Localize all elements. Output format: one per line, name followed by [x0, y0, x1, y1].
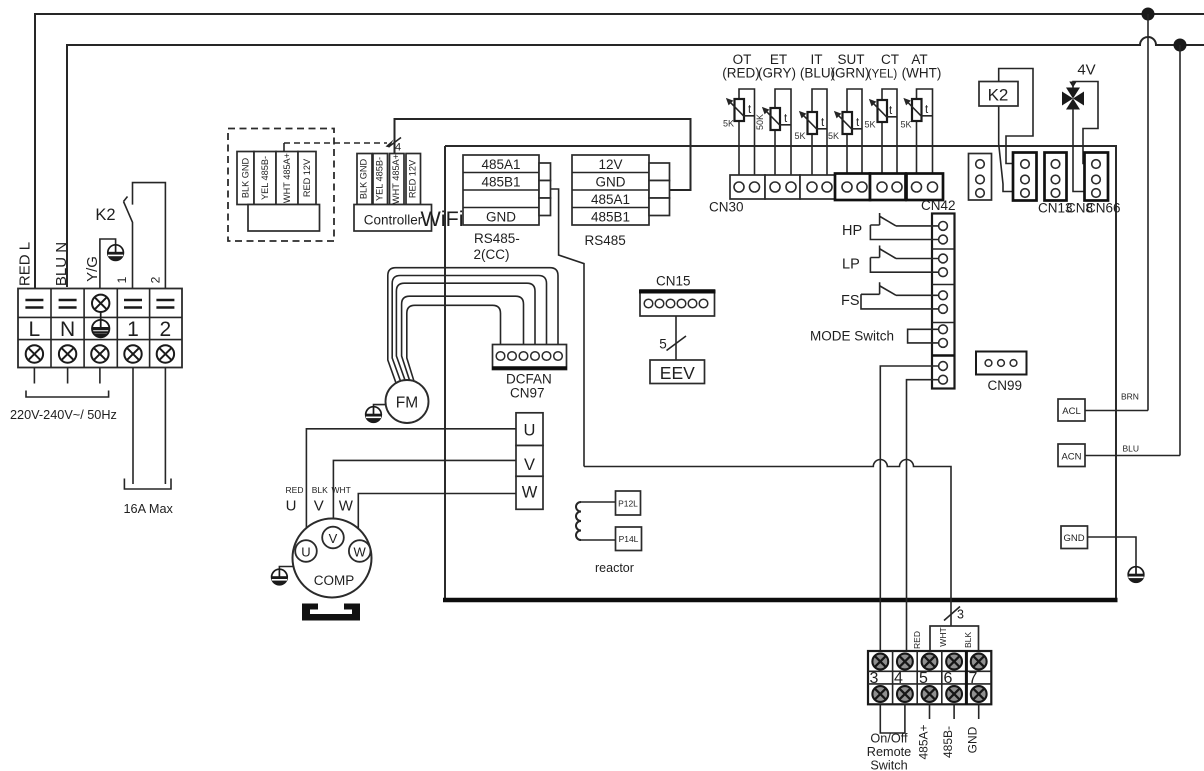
supply bracket [26, 391, 109, 398]
connector CN42 strip [932, 214, 955, 389]
svg-text:GND: GND [966, 726, 980, 753]
svg-text:BLK: BLK [312, 485, 328, 495]
wire 485A+ stub [929, 704, 931, 719]
ground earth FM [374, 405, 387, 407]
svg-text:reactor: reactor [595, 561, 634, 575]
svg-text:DCFAN: DCFAN [506, 372, 552, 387]
svg-text:FM: FM [396, 395, 418, 412]
svg-text:WHT 485A+: WHT 485A+ [282, 153, 292, 203]
svg-text:WHT 485A+: WHT 485A+ [391, 154, 401, 204]
RS485-2 tabs [539, 163, 551, 181]
connector block 2 [765, 175, 800, 199]
svg-text:BLK GND: BLK GND [241, 157, 251, 198]
svg-text:P14L: P14L [619, 534, 639, 544]
connector block 6 [907, 174, 944, 201]
svg-text:(GRY): (GRY) [758, 66, 796, 81]
PCB board outline [445, 146, 1116, 600]
svg-text:GND: GND [1063, 533, 1084, 544]
wire GND to earth [1088, 537, 1137, 567]
svg-text:485B1: 485B1 [481, 175, 520, 190]
terminal GND [1061, 526, 1088, 549]
terminal W box [516, 476, 543, 509]
wire V to COMP [333, 460, 516, 527]
svg-text:V: V [329, 531, 338, 546]
svg-text:t: t [821, 117, 825, 129]
node junction dot second line [1174, 39, 1187, 52]
svg-text:(WHT): (WHT) [902, 66, 942, 81]
svg-text:t: t [856, 117, 860, 129]
svg-text:CT: CT [881, 52, 899, 67]
wire U to COMP [306, 429, 516, 541]
svg-text:W: W [522, 484, 538, 502]
svg-text:RED: RED [912, 631, 922, 649]
svg-text:FS: FS [841, 293, 860, 309]
svg-text:RS485: RS485 [585, 233, 626, 248]
svg-text:BLU N: BLU N [53, 242, 70, 286]
connector CN13 [1013, 153, 1037, 201]
svg-text:BLK: BLK [963, 632, 973, 648]
sensor labels row [722, 52, 941, 81]
svg-text:Remote: Remote [867, 745, 911, 759]
slash 3-wire mark [944, 607, 960, 621]
wire remote B from CN42 pin10 [907, 380, 939, 651]
svg-text:LP: LP [842, 257, 860, 273]
wire remote A from CN42 pin9 [880, 366, 938, 651]
svg-text:Controller: Controller [364, 213, 423, 228]
wire remote loop below TB2 [880, 704, 905, 733]
svg-text:WiFi: WiFi [421, 207, 464, 231]
terminal block cell dividers [51, 289, 150, 368]
svg-text:HP: HP [842, 223, 862, 239]
svg-text:5K: 5K [723, 119, 734, 129]
TB2 screws top row [872, 654, 888, 670]
svg-text:12V: 12V [598, 157, 622, 172]
svg-text:RS485-: RS485- [474, 231, 520, 246]
svg-text:RED 12V: RED 12V [302, 158, 312, 197]
wire ACL drop (BRN) [1147, 14, 1149, 411]
svg-text:U: U [301, 545, 310, 560]
16A bracket [124, 479, 171, 490]
wire screw link [100, 312, 102, 320]
wire GND stub [978, 704, 980, 719]
svg-text:485A1: 485A1 [591, 192, 630, 207]
RS485 tabs [649, 163, 670, 181]
connector block 5 [870, 174, 906, 201]
wire W to COMP [358, 494, 516, 541]
svg-text:K2: K2 [95, 206, 115, 224]
thermistor SUT [828, 89, 862, 182]
ground earth screw near K2 [108, 245, 124, 261]
svg-text:485A+: 485A+ [917, 724, 931, 759]
dashed cable to controller [283, 143, 285, 152]
svg-text:5K: 5K [795, 131, 806, 141]
svg-text:W: W [354, 545, 367, 560]
relay K2 box [979, 82, 1018, 107]
svg-text:RED: RED [286, 485, 304, 495]
wire ACL to BRN [1085, 410, 1148, 412]
slash 4-wire mark [389, 138, 402, 148]
svg-text:(RED): (RED) [722, 66, 760, 81]
terminal V box [516, 446, 543, 477]
svg-text:4: 4 [395, 142, 401, 154]
wire Y/G with earth screw [100, 239, 116, 289]
svg-text:RED L: RED L [17, 242, 34, 286]
relay K2 contact blade and terminal 1 wire [124, 197, 133, 289]
compressor mount bracket [302, 604, 360, 621]
connector pins [734, 182, 938, 192]
earth screw symbol row2 [92, 320, 109, 337]
controller cable 4-wire riser to RS485 [395, 119, 691, 190]
TB2 screws bottom row [872, 686, 888, 702]
terminal ACN [1058, 444, 1085, 467]
connector block 4 [835, 174, 870, 201]
svg-text:MODE Switch: MODE Switch [810, 329, 894, 344]
svg-text:4: 4 [894, 670, 903, 687]
svg-text:5K: 5K [865, 120, 876, 130]
motor FM wires to DCFAN (nested) [388, 268, 558, 383]
svg-text:1: 1 [115, 276, 129, 283]
wire 4V bottom [1073, 109, 1091, 192]
svg-text:CN42: CN42 [921, 198, 956, 213]
svg-text:2: 2 [160, 318, 172, 341]
valve flow arrow [1069, 82, 1076, 88]
svg-text:N: N [60, 318, 75, 341]
controller connector pin strips [357, 154, 372, 205]
connector CN15 [640, 290, 715, 316]
compressor COMP [293, 519, 372, 598]
terminal P12L [616, 491, 641, 515]
svg-text:485B-: 485B- [941, 726, 955, 758]
svg-text:5: 5 [919, 670, 928, 687]
svg-text:485B1: 485B1 [591, 210, 630, 225]
svg-text:CN30: CN30 [709, 200, 744, 215]
wire N (BLU) from terminal N across second line with hop over BRN drop [67, 37, 1204, 287]
terminal block TB1 outline [18, 289, 182, 368]
svg-text:GND: GND [486, 210, 516, 225]
svg-text:V: V [524, 456, 535, 474]
connector CN99 [976, 352, 1027, 375]
svg-text:ACN: ACN [1061, 452, 1081, 463]
svg-text:4V: 4V [1077, 62, 1095, 79]
svg-text:P12L: P12L [618, 499, 638, 509]
svg-text:U: U [286, 498, 297, 515]
svg-text:5: 5 [659, 337, 667, 352]
wire ACN to BLU [1085, 455, 1180, 457]
dashed remote-controller box [228, 129, 334, 242]
wire K2 coil top loop [999, 69, 1033, 164]
terminal U box [516, 413, 543, 446]
svg-text:Y/G: Y/G [84, 256, 101, 282]
connector DCFAN CN97 [493, 345, 567, 370]
svg-text:RED 12V: RED 12V [407, 159, 417, 198]
svg-text:Switch: Switch [870, 759, 907, 771]
svg-text:3: 3 [957, 608, 964, 622]
svg-text:L: L [29, 318, 41, 341]
terminal ACL [1058, 399, 1085, 421]
connector CNx block left [969, 154, 992, 201]
svg-text:16A Max: 16A Max [124, 502, 174, 516]
svg-text:ACL: ACL [1062, 406, 1080, 417]
svg-text:7: 7 [969, 670, 978, 687]
svg-text:6: 6 [944, 670, 953, 687]
svg-text:On/Off: On/Off [870, 732, 908, 746]
PCB board bottom edge (thick) [443, 598, 1118, 603]
wire from RS485-2 tab down to harness [551, 189, 585, 467]
wires terminals 1,2 down [133, 368, 165, 485]
terminal block TB2 [868, 651, 991, 704]
controller housing box [354, 205, 432, 232]
ground earth right [1128, 567, 1144, 583]
motor FM [386, 380, 429, 423]
svg-text:t: t [889, 105, 893, 117]
CN42 pins [939, 222, 948, 385]
valve EEV box [650, 360, 705, 384]
svg-text:t: t [748, 104, 752, 116]
svg-text:2: 2 [149, 276, 163, 283]
wire 485B- stub [953, 704, 955, 719]
svg-text:CN99: CN99 [988, 378, 1023, 393]
screw row1 earth cell [92, 295, 109, 312]
svg-text:CN15: CN15 [656, 274, 691, 289]
connector CN8 [1045, 153, 1067, 201]
connector RS485 box [572, 155, 649, 225]
node junction dot top line [1142, 8, 1155, 21]
svg-text:220V-240V~/ 50Hz: 220V-240V~/ 50Hz [10, 408, 117, 422]
svg-text:485A1: 485A1 [481, 157, 520, 172]
terminal block row lines [18, 317, 182, 339]
svg-text:1: 1 [127, 318, 139, 341]
svg-text:YEL 485B-: YEL 485B- [260, 156, 270, 200]
3-wire bundle box above bottom block [930, 626, 979, 651]
MODE switch loop [908, 329, 939, 343]
svg-text:K2: K2 [988, 86, 1009, 105]
svg-text:EEV: EEV [660, 363, 695, 383]
svg-text:V: V [314, 498, 324, 515]
wire ACN drop (BLU) [1179, 45, 1181, 456]
svg-text:WHT: WHT [938, 627, 948, 646]
connector block 3 [800, 175, 835, 199]
svg-text:50K: 50K [755, 114, 765, 130]
thermistor IT [795, 89, 828, 182]
svg-text:CN97: CN97 [510, 386, 545, 401]
svg-text:GND: GND [596, 175, 626, 190]
relay K2 fixed contact loop to terminal 2 [133, 183, 166, 289]
svg-text:t: t [784, 113, 788, 125]
thermistor AT [901, 89, 933, 182]
thermistor OT [723, 89, 755, 182]
ground earth COMP [279, 567, 293, 570]
slash 5-wire mark [667, 336, 687, 351]
connector J1 housing [248, 205, 320, 232]
supply stub wires below block [34, 368, 100, 384]
svg-text:2(CC): 2(CC) [474, 247, 510, 262]
screw terminals row3 [26, 345, 43, 362]
svg-text:YEL 485B-: YEL 485B- [374, 157, 384, 201]
connector CN66 [1085, 153, 1109, 201]
svg-text:3: 3 [870, 670, 879, 687]
harness wire across with hops over remote wires [584, 460, 951, 626]
thermistor CT [865, 89, 898, 182]
connector RS485-2(CC) box [463, 155, 539, 225]
svg-text:U: U [524, 422, 536, 440]
svg-text:5K: 5K [828, 131, 839, 141]
wire 4V top loop [1073, 82, 1098, 164]
svg-text:CN66: CN66 [1086, 201, 1121, 216]
svg-text:t: t [925, 104, 929, 116]
svg-text:(YEL): (YEL) [868, 69, 898, 81]
thermistor ET [755, 89, 791, 182]
wire K2 coil bottom [999, 106, 1019, 192]
arrowhead dashed cable end [386, 140, 394, 148]
svg-text:COMP: COMP [314, 573, 355, 588]
svg-text:5K: 5K [901, 120, 912, 130]
terminal clamp bars row1 [25, 300, 174, 308]
valve 4V symbol [1062, 88, 1084, 110]
wire CN15 to EEV [675, 316, 677, 360]
svg-text:WHT: WHT [332, 485, 351, 495]
svg-text:(GRN): (GRN) [831, 66, 870, 81]
connector CN30 block 1 [730, 175, 765, 199]
terminal P14L [616, 527, 642, 551]
svg-text:W: W [339, 498, 354, 515]
connector J1 pin strips (dashed box) [237, 152, 254, 205]
reactor coil [576, 502, 581, 540]
svg-text:BLU: BLU [1123, 444, 1140, 454]
wire L (RED) from terminal L up and across top to right side [35, 14, 1204, 289]
svg-text:BRN: BRN [1121, 392, 1139, 402]
svg-text:BLK GND: BLK GND [359, 158, 369, 199]
